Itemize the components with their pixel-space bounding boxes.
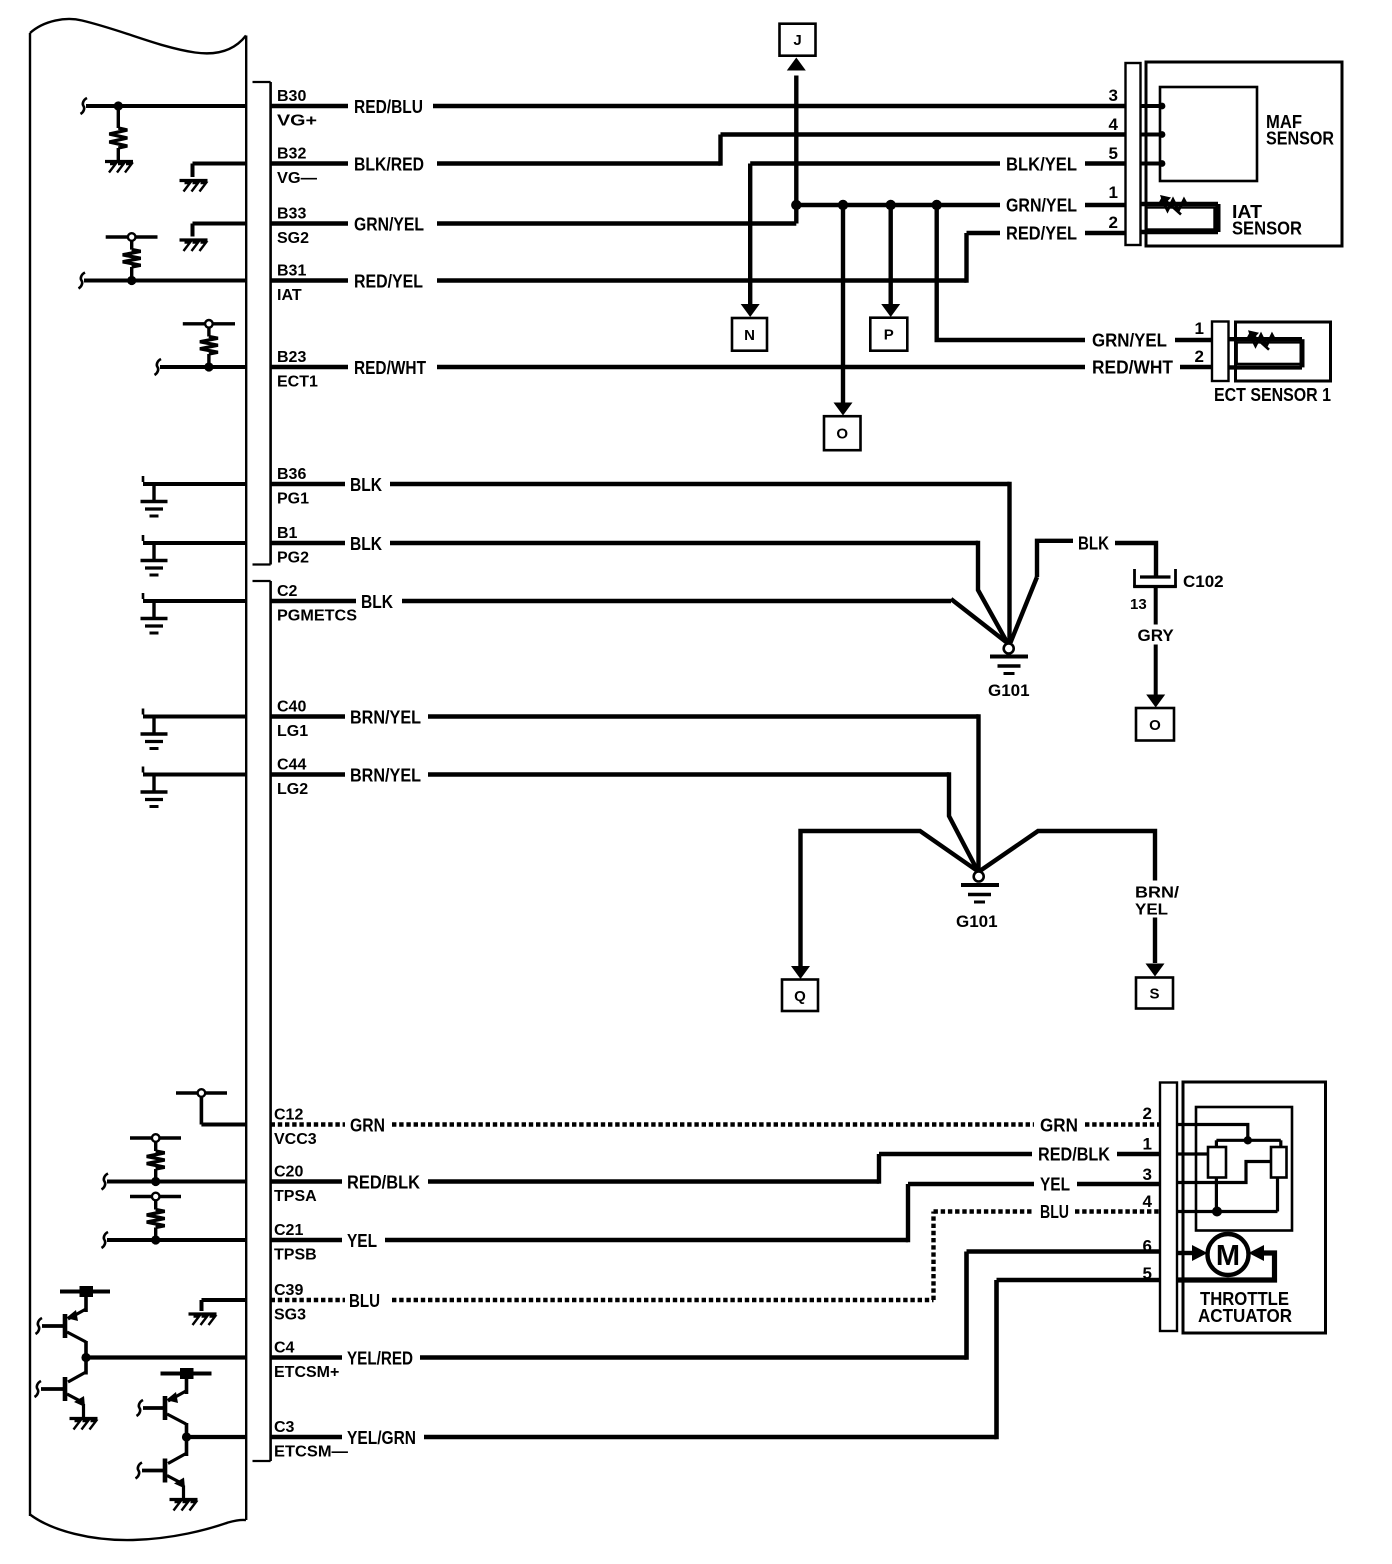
resistor internal VG+ pull-down bbox=[109, 106, 127, 162]
MAF sensor outer box bbox=[1146, 62, 1342, 246]
node junction GRN/YEL bus drop to ECT sensor bbox=[932, 200, 942, 210]
pin C2 PGMETCS labels bbox=[277, 583, 357, 625]
wire riser to connector J bbox=[794, 76, 798, 206]
svg-text:C4: C4 bbox=[274, 1340, 295, 1357]
ground (chassis) for Q2 bbox=[70, 1419, 98, 1430]
wire GRY (C102 to connector O) bbox=[1138, 588, 1175, 696]
svg-text:1: 1 bbox=[1195, 319, 1204, 338]
arrow into J bbox=[787, 58, 806, 71]
pin B32 VG&#8722; labels bbox=[277, 146, 317, 188]
svg-text:G101: G101 bbox=[956, 912, 998, 931]
ground (chassis) for SG3 bbox=[189, 1314, 217, 1325]
svg-text:Q: Q bbox=[794, 988, 806, 1005]
svg-text:3: 3 bbox=[1143, 1165, 1152, 1184]
svg-text:ACTUATOR: ACTUATOR bbox=[1198, 1306, 1292, 1326]
pin C21 TPSB labels bbox=[274, 1222, 317, 1264]
svg-text:C2: C2 bbox=[277, 583, 298, 600]
svg-text:O: O bbox=[836, 426, 848, 443]
pin 2 label ECT bbox=[1195, 347, 1204, 366]
IAT sensor element (thermistor loop) bbox=[1141, 204, 1219, 232]
transistor Q1 (PNP, ETCSM+ high side) bbox=[36, 1309, 87, 1342]
svg-text:VG—: VG— bbox=[277, 170, 317, 187]
svg-text:BLK: BLK bbox=[350, 475, 382, 495]
ground (chassis) for SG2 bbox=[180, 240, 208, 251]
supply rail node for ECT1 pull-up bbox=[183, 320, 235, 328]
svg-text:IAT: IAT bbox=[277, 287, 302, 304]
arrow into P bbox=[881, 304, 900, 317]
wire Q2 emitter to ground bbox=[82, 1404, 85, 1417]
pin 2 label IAT bbox=[1109, 213, 1118, 232]
node junction TPSA pull-up bbox=[151, 1177, 160, 1186]
pin 3 label MAF bbox=[1109, 86, 1118, 105]
svg-text:VG+: VG+ bbox=[277, 113, 317, 130]
svg-text:YEL: YEL bbox=[1040, 1175, 1070, 1195]
resistor internal TPSB pull-up bbox=[147, 1197, 165, 1241]
wire vertical drop GRN/YEL to connector P bbox=[889, 205, 893, 305]
svg-text:LG2: LG2 bbox=[277, 781, 308, 798]
svg-text:PG2: PG2 bbox=[277, 550, 309, 567]
resistor element TPS A bbox=[1208, 1147, 1226, 1178]
resistor internal ECT1 pull-up bbox=[200, 324, 218, 367]
svg-text:C21: C21 bbox=[274, 1222, 303, 1239]
wire vertical drop BLK/YEL to connector N bbox=[748, 164, 752, 305]
wire BLK branch (G101 to connector C102) bbox=[1011, 534, 1157, 643]
arrow into O bbox=[834, 403, 853, 416]
svg-text:SENSOR: SENSOR bbox=[1266, 129, 1334, 149]
supply rail node VCC3 internal bbox=[176, 1089, 246, 1124]
svg-text:RED/YEL: RED/YEL bbox=[354, 272, 423, 292]
svg-text:TPSB: TPSB bbox=[274, 1247, 317, 1264]
ground (earth) LG2 bbox=[141, 792, 168, 807]
ground point G101 (upper) bbox=[988, 644, 1030, 701]
svg-text:VCC3: VCC3 bbox=[274, 1131, 317, 1148]
wire internal IAT (hook to pin B31) bbox=[79, 273, 247, 289]
svg-text:4: 4 bbox=[1109, 115, 1119, 134]
svg-text:C20: C20 bbox=[274, 1164, 303, 1181]
node junction potentiometer top rail bbox=[1244, 1136, 1252, 1144]
pin 6 label throttle bbox=[1143, 1237, 1152, 1256]
svg-text:P: P bbox=[884, 327, 894, 344]
svg-text:6: 6 bbox=[1143, 1237, 1152, 1256]
thermistor ECT bbox=[1247, 330, 1275, 350]
wire pin 2 to potentiometer top rail bbox=[1177, 1125, 1281, 1148]
svg-text:YEL/GRN: YEL/GRN bbox=[347, 1428, 416, 1448]
wire BLK/RED (pin B32, steps up to MAF sensor pin 4) bbox=[271, 135, 1126, 175]
label THROTTLE ACTUATOR bbox=[1198, 1289, 1292, 1326]
pin 4 stub MAF bbox=[1141, 131, 1166, 138]
wire YEL/RED (pin C4 to throttle actuator pin 6) bbox=[86, 1252, 1160, 1369]
arrow into S bbox=[1146, 964, 1165, 977]
ECU connector strip section C bbox=[253, 581, 271, 1461]
ECU connector strip section B bbox=[253, 82, 271, 565]
wire internal LG1 to earth ground bbox=[143, 709, 246, 733]
wire Q4 emitter to ground bbox=[182, 1486, 185, 1499]
svg-text:GRN: GRN bbox=[350, 1116, 385, 1136]
connector C102 (in-line) bbox=[1133, 569, 1223, 591]
wire GRN/YEL bus (to MAF sensor pin 1) bbox=[796, 196, 1125, 216]
pin 13 label C102 bbox=[1130, 596, 1147, 613]
svg-text:YEL/RED: YEL/RED bbox=[347, 1349, 413, 1369]
ground (earth) PG1 bbox=[141, 502, 168, 517]
wire pin 6 to motor bbox=[1177, 1245, 1208, 1261]
wire RED/BLU (pin B30 to MAF sensor pin 3) bbox=[271, 97, 1126, 117]
svg-text:C39: C39 bbox=[274, 1282, 303, 1299]
supply rail node for TPSA pull-up bbox=[130, 1134, 181, 1142]
svg-text:RED/BLU: RED/BLU bbox=[354, 97, 423, 117]
svg-text:GRN/YEL: GRN/YEL bbox=[1006, 196, 1077, 216]
svg-text:TPSA: TPSA bbox=[274, 1188, 317, 1205]
svg-text:5: 5 bbox=[1143, 1264, 1152, 1283]
throttle actuator connector strip bbox=[1160, 1083, 1177, 1332]
connector P bbox=[870, 318, 907, 351]
svg-text:RED/BLK: RED/BLK bbox=[1038, 1145, 1110, 1165]
pin 4 label MAF bbox=[1109, 115, 1119, 134]
wire RED/WHT (pin B23 to ECT sensor 1 pin 2) bbox=[271, 358, 1212, 379]
ground (earth) PG2 bbox=[141, 561, 168, 576]
svg-text:GRY: GRY bbox=[1138, 626, 1175, 645]
svg-text:B1: B1 bbox=[277, 525, 298, 542]
svg-text:BLU: BLU bbox=[349, 1291, 380, 1311]
wire internal VG+ (hook to pin B30) bbox=[81, 98, 247, 114]
connector O (upper) bbox=[824, 416, 861, 450]
svg-text:2: 2 bbox=[1143, 1104, 1152, 1123]
ECU/PCM torn bottom edge bbox=[30, 1515, 246, 1541]
wire pin 4 to potentiometer bottom rail bbox=[1177, 1178, 1278, 1212]
svg-text:BRN/: BRN/ bbox=[1135, 885, 1180, 902]
wire BRN/YEL (pin C44 to G101 lower) bbox=[271, 766, 978, 871]
wire internal PGMETCS to earth ground bbox=[143, 593, 246, 617]
svg-text:C40: C40 bbox=[277, 699, 306, 716]
pin B1 PG2 labels bbox=[277, 525, 309, 567]
pin 4 label throttle bbox=[1143, 1192, 1153, 1211]
pin 5 label throttle bbox=[1143, 1264, 1152, 1283]
svg-text:ECT1: ECT1 bbox=[277, 374, 318, 391]
svg-text:RED/YEL: RED/YEL bbox=[1006, 224, 1077, 244]
svg-text:PG1: PG1 bbox=[277, 491, 309, 508]
pin C3 ETCSM&#8722; labels bbox=[274, 1419, 348, 1461]
svg-text:YEL: YEL bbox=[347, 1231, 377, 1251]
svg-text:1: 1 bbox=[1143, 1135, 1152, 1154]
arrow into O (lower) bbox=[1146, 695, 1165, 708]
connector J bbox=[780, 24, 816, 56]
svg-text:1: 1 bbox=[1109, 183, 1118, 202]
pin B36 PG1 labels bbox=[277, 466, 309, 508]
pin 2 label throttle bbox=[1143, 1104, 1152, 1123]
svg-text:C12: C12 bbox=[274, 1107, 303, 1124]
wire internal TPSA (hook to pin C20) bbox=[102, 1174, 247, 1190]
wire BRN/YEL branch (G101 lower to connector S) bbox=[980, 831, 1180, 963]
wire internal VG&#8722; to chassis ground bbox=[193, 164, 247, 178]
wire RED/YEL (pin B31 to IAT sensor pin 2) bbox=[271, 224, 1126, 292]
node junction ETCSM+ bbox=[81, 1353, 90, 1362]
resistor internal IAT pull-up bbox=[123, 237, 141, 281]
svg-text:5: 5 bbox=[1109, 144, 1118, 163]
svg-text:B33: B33 bbox=[277, 206, 306, 223]
wire BRN/YEL (pin C40 to G101 lower) bbox=[271, 708, 979, 872]
svg-text:B30: B30 bbox=[277, 88, 306, 105]
wire BLK (pin B36 to G101) bbox=[271, 475, 1010, 644]
MAF sensor connector strip bbox=[1126, 63, 1141, 245]
pin B33 SG2 labels bbox=[277, 206, 309, 248]
wire motor to pin 5 loop bbox=[1177, 1245, 1275, 1280]
svg-text:ETCSM—: ETCSM— bbox=[274, 1444, 348, 1461]
svg-text:13: 13 bbox=[1130, 596, 1147, 613]
svg-text:ETCSM+: ETCSM+ bbox=[274, 1364, 339, 1381]
wire internal ECT1 (hook to pin B23) bbox=[155, 359, 247, 375]
label IAT SENSOR bbox=[1232, 202, 1302, 239]
svg-text:GRN/YEL: GRN/YEL bbox=[354, 215, 424, 235]
svg-text:PGMETCS: PGMETCS bbox=[277, 608, 357, 625]
pin B31 IAT labels bbox=[277, 263, 306, 305]
wire YEL (pin C21 to throttle actuator pin 3) bbox=[271, 1175, 1160, 1252]
transistor Q3 (PNP, ETCSM&#8722; high side) bbox=[137, 1391, 187, 1424]
ECU/PCM block left border (partial, torn edge) bbox=[29, 33, 31, 1516]
wire internal PG1 to earth ground bbox=[143, 476, 246, 500]
wire GRN/YEL drop to ECT sensor 1 pin 1 bbox=[937, 205, 1212, 351]
svg-text:G101: G101 bbox=[988, 681, 1030, 700]
svg-text:3: 3 bbox=[1109, 86, 1118, 105]
svg-text:4: 4 bbox=[1143, 1192, 1153, 1211]
svg-text:B36: B36 bbox=[277, 466, 306, 483]
arrow into N bbox=[741, 304, 760, 317]
svg-text:RED/WHT: RED/WHT bbox=[354, 358, 426, 378]
node junction potentiometer bottom rail bbox=[1212, 1207, 1222, 1217]
pin 5 label MAF bbox=[1109, 144, 1118, 163]
svg-text:GRN: GRN bbox=[1040, 1116, 1078, 1136]
pin B30 VG+ labels bbox=[277, 88, 317, 130]
ECT sensor element (thermistor loop) bbox=[1229, 339, 1303, 367]
wire BLK (pin B1 to G101) bbox=[271, 534, 1008, 643]
wire ETCSM&#8722; node to Q4 bbox=[185, 1437, 189, 1456]
transistor Q4 (NPN, ETCSM&#8722; low side) bbox=[136, 1454, 187, 1489]
pin 5 stub MAF bbox=[1141, 160, 1166, 167]
node junction IAT pull-up bbox=[127, 276, 136, 285]
pin C40 LG1 labels bbox=[277, 699, 308, 741]
pin C4 ETCSM+ labels bbox=[274, 1340, 339, 1382]
ECT sensor connector strip bbox=[1212, 322, 1229, 382]
svg-text:RED/BLK: RED/BLK bbox=[347, 1173, 420, 1193]
node junction GRN/YEL bus drop O bbox=[838, 200, 848, 210]
ground (chassis) below VG+ resistor bbox=[105, 162, 133, 173]
wire internal SG3 to chassis ground bbox=[202, 1300, 247, 1311]
wire internal TPSB (hook to pin C21) bbox=[102, 1232, 247, 1248]
wire pin 1 to TPS A wiper bbox=[1177, 1152, 1208, 1155]
throttle position sensor inner box bbox=[1196, 1107, 1292, 1231]
pin C12 VCC3 labels bbox=[274, 1107, 317, 1149]
svg-text:C3: C3 bbox=[274, 1419, 295, 1436]
node junction GRN/YEL bus at J riser bbox=[791, 200, 801, 210]
arrow into Q bbox=[791, 966, 810, 979]
node junction ETCSM&#8722; bbox=[182, 1432, 191, 1441]
ECU/PCM block right border bbox=[245, 36, 247, 1521]
svg-text:GRN/YEL: GRN/YEL bbox=[1092, 331, 1167, 351]
connector Q bbox=[782, 980, 818, 1012]
wire GRN/YEL (pin B33 segment) bbox=[271, 205, 797, 235]
wire internal PG2 to earth ground bbox=[143, 535, 246, 559]
ground point G101 (lower) bbox=[956, 872, 999, 932]
label MAF SENSOR bbox=[1266, 112, 1334, 149]
svg-text:O: O bbox=[1149, 717, 1161, 734]
wire vertical drop GRN/YEL to connector O bbox=[841, 205, 845, 403]
pin C44 LG2 labels bbox=[277, 757, 308, 799]
ground (earth) PGMETCS bbox=[141, 619, 168, 634]
wire BLK (pin C2 to G101) bbox=[271, 592, 1008, 644]
pin 3 label throttle bbox=[1143, 1165, 1152, 1184]
wire RED/BLK (pin C20 to throttle actuator pin 1) bbox=[271, 1145, 1160, 1193]
connector N bbox=[732, 318, 767, 351]
ECT sensor 1 outer box bbox=[1236, 322, 1331, 381]
node junction GRN/YEL bus drop P bbox=[886, 200, 896, 210]
svg-text:2: 2 bbox=[1109, 213, 1118, 232]
svg-text:B32: B32 bbox=[277, 146, 306, 163]
pin 1 label IAT bbox=[1109, 183, 1118, 202]
motor M (throttle actuator) bbox=[1208, 1234, 1249, 1275]
node junction ECT1 pull-up bbox=[204, 362, 213, 371]
wire internal LG2 to earth ground bbox=[143, 767, 246, 791]
pin 3 stub MAF bbox=[1141, 103, 1166, 110]
wire BLU (pin C39 to throttle actuator pin 4, dotted) bbox=[271, 1202, 1160, 1311]
pin 1 label ECT bbox=[1195, 319, 1204, 338]
connector O (lower) bbox=[1136, 708, 1174, 741]
label ECT SENSOR 1 bbox=[1214, 385, 1331, 405]
wire pin 3 to TPS B wiper bbox=[1177, 1162, 1271, 1183]
resistor internal TPSA pull-up bbox=[147, 1138, 165, 1182]
wire Q3 collector to ETCSM&#8722; node bbox=[185, 1423, 189, 1437]
pin B23 ECT1 labels bbox=[277, 349, 318, 391]
junction node on VG+ internal wire bbox=[114, 101, 123, 110]
svg-text:2: 2 bbox=[1195, 347, 1204, 366]
wire BLK/YEL (MAF sensor pin 5 branch) bbox=[750, 155, 1125, 175]
wire internal SG2 to chassis ground bbox=[193, 224, 247, 237]
svg-text:BLK/YEL: BLK/YEL bbox=[1006, 155, 1077, 175]
svg-text:N: N bbox=[744, 327, 755, 344]
svg-text:S: S bbox=[1149, 986, 1159, 1003]
supply bar with node (ETCSM+ driver) bbox=[60, 1286, 110, 1312]
thermistor IAT bbox=[1159, 195, 1187, 215]
pin 1 label throttle bbox=[1143, 1135, 1152, 1154]
ground (chassis) for Q4 bbox=[170, 1500, 198, 1511]
svg-text:SENSOR: SENSOR bbox=[1232, 219, 1302, 239]
pin C39 SG3 labels bbox=[274, 1282, 306, 1324]
svg-text:SG3: SG3 bbox=[274, 1307, 306, 1324]
svg-text:BLU: BLU bbox=[1040, 1202, 1069, 1222]
supply rail node for TPSB pull-up bbox=[130, 1193, 181, 1201]
wire YEL/GRN (pin C3 to throttle actuator pin 5) bbox=[187, 1280, 1161, 1448]
MAF sensor inner element box bbox=[1160, 87, 1257, 181]
svg-text:J: J bbox=[793, 32, 801, 49]
svg-text:C44: C44 bbox=[277, 757, 306, 774]
ECU/PCM torn top edge bbox=[30, 19, 246, 53]
svg-text:B31: B31 bbox=[277, 263, 306, 280]
supply rail node for IAT pull-up bbox=[106, 233, 158, 241]
node junction TPSB pull-up bbox=[151, 1235, 160, 1244]
svg-text:M: M bbox=[1216, 1240, 1240, 1272]
wire branch (G101 lower to connector Q) bbox=[801, 831, 978, 966]
svg-text:LG1: LG1 bbox=[277, 723, 308, 740]
connector S bbox=[1136, 978, 1173, 1009]
pin C20 TPSA labels bbox=[274, 1164, 317, 1206]
throttle actuator outer box bbox=[1183, 1082, 1326, 1333]
svg-text:RED/WHT: RED/WHT bbox=[1092, 358, 1173, 378]
svg-text:BLK/RED: BLK/RED bbox=[354, 155, 424, 175]
svg-text:SG2: SG2 bbox=[277, 230, 309, 247]
svg-text:C102: C102 bbox=[1183, 572, 1224, 591]
svg-text:YEL: YEL bbox=[1135, 902, 1168, 919]
wire ETCSM+ node to Q2 bbox=[84, 1358, 88, 1375]
svg-text:BLK: BLK bbox=[361, 592, 393, 612]
wire GRN (pin C12 to throttle actuator pin 2, dotted) bbox=[271, 1116, 1160, 1136]
ground (earth) LG1 bbox=[141, 734, 168, 749]
svg-text:ECT SENSOR 1: ECT SENSOR 1 bbox=[1214, 385, 1331, 405]
ground (chassis) for VG&#8722; bbox=[180, 181, 208, 192]
svg-text:BLK: BLK bbox=[1078, 534, 1109, 554]
transistor Q2 (NPN, ETCSM+ low side) bbox=[35, 1372, 87, 1407]
wire Q1 collector to ETCSM+ node bbox=[84, 1341, 88, 1358]
svg-text:BLK: BLK bbox=[350, 534, 382, 554]
svg-text:B23: B23 bbox=[277, 349, 306, 366]
supply bar with node (ETCSM&#8722; driver) bbox=[161, 1368, 212, 1394]
svg-text:BRN/YEL: BRN/YEL bbox=[350, 766, 421, 786]
svg-text:BRN/YEL: BRN/YEL bbox=[350, 708, 421, 728]
resistor element TPS B bbox=[1271, 1147, 1287, 1178]
